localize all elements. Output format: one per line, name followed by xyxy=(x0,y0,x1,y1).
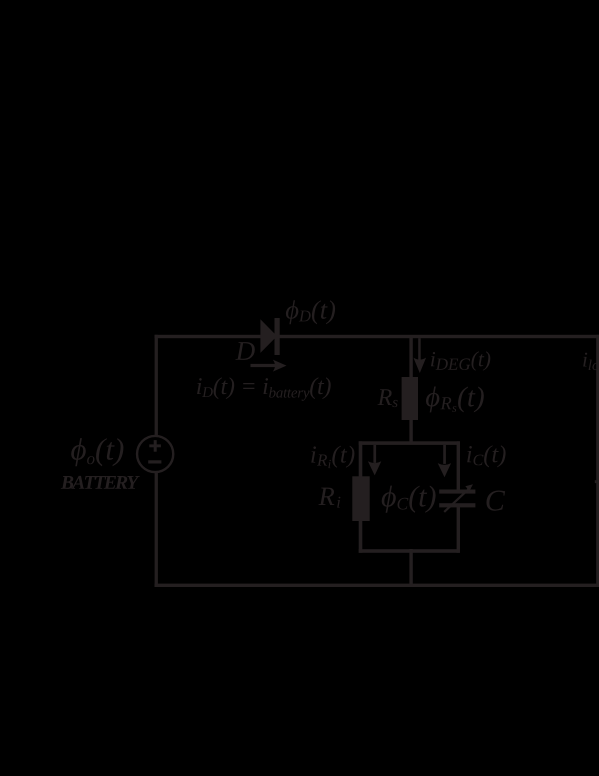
label phi_Rs(t) xyxy=(426,387,484,413)
partial plus mark of load label at right edge xyxy=(595,480,599,483)
wire: parallel box right vertical lower xyxy=(457,507,460,553)
battery plus sign xyxy=(149,444,161,447)
label Rs xyxy=(378,389,398,407)
wire: parallel box bottom xyxy=(359,549,460,553)
label D xyxy=(235,342,254,360)
wire: top rail from top-left corner to right edge xyxy=(155,335,599,338)
diode D triangle xyxy=(260,319,277,353)
wire: bottom rail from left corner to right edge xyxy=(155,584,599,587)
wire: parallel box right vertical upper xyxy=(457,441,460,490)
capacitor C variable arrow shaft xyxy=(444,488,470,512)
current arrow i_C xyxy=(443,445,446,464)
resistor Ri body xyxy=(352,476,369,521)
wire: Rs branch vertical from top rail xyxy=(409,338,412,443)
label i_D(t) = i_battery(t) xyxy=(197,377,331,400)
label BATTERY xyxy=(61,476,140,489)
label i_C(t) xyxy=(467,445,505,467)
wire: center stem to bottom rail xyxy=(409,549,412,587)
capacitor C top plate xyxy=(439,490,475,494)
label C xyxy=(487,491,506,511)
wire: parallel box top xyxy=(359,441,460,445)
current arrow i_Ri xyxy=(373,445,376,463)
diode D cathode bar xyxy=(275,318,280,355)
label Ri xyxy=(319,488,341,508)
current arrow i_D under diode xyxy=(251,364,277,367)
label phi_C(t) xyxy=(382,486,436,513)
battery source circle xyxy=(137,436,173,472)
wire: left rail upper segment (corner to battery top) xyxy=(155,335,158,436)
label phi_D(t) xyxy=(286,300,335,324)
wire: right edge load branch vertical (clipped by image edge) xyxy=(596,335,599,587)
label i_Ri(t) xyxy=(311,446,354,469)
label i_DEG(t) xyxy=(431,351,490,371)
current arrow i_DEG xyxy=(418,338,421,360)
battery minus sign xyxy=(148,460,161,463)
resistor Rs body xyxy=(402,377,418,420)
capacitor C variable arrow head xyxy=(465,484,473,493)
capacitor C bottom plate xyxy=(439,503,475,507)
label phi_o(t) xyxy=(71,438,123,466)
label i_load (clipped at right edge) xyxy=(583,352,599,371)
wire: left rail lower segment (battery bottom to bottom rail) xyxy=(155,472,158,586)
wire: parallel box left vertical xyxy=(359,441,363,553)
